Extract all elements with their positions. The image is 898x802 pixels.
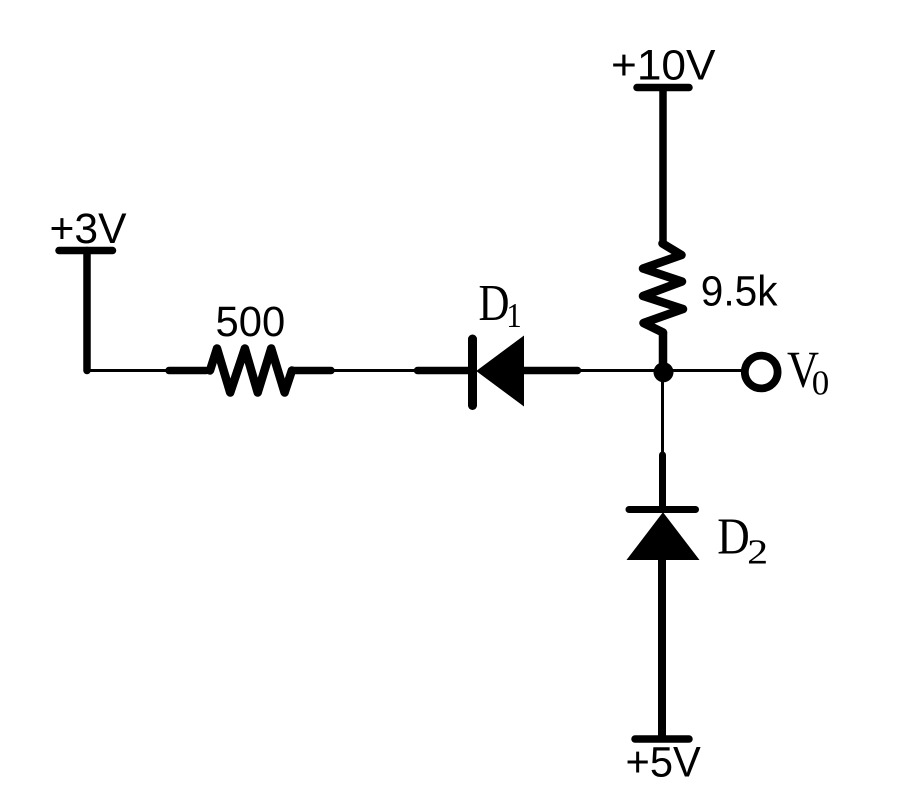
wire thin horizontal through node to output	[577, 369, 745, 372]
wire thin horizontal to R 500	[87, 369, 169, 372]
wire vertical from +10V rail to R 9.5k	[659, 88, 667, 244]
diode D1 anode-side lead	[418, 367, 471, 375]
svg-text:+10V: +10V	[611, 42, 716, 90]
diode D1 cathode bar	[468, 339, 477, 406]
svg-text:0: 0	[812, 364, 830, 403]
output terminal circle V0	[745, 356, 778, 389]
supply rail bar +10V	[637, 84, 689, 92]
svg-text:+5V: +5V	[626, 739, 702, 787]
resistor 500 right lead	[294, 367, 332, 375]
supply rail bar +5V	[635, 735, 689, 743]
svg-text:+3V: +3V	[50, 205, 127, 253]
wire thin horizontal to D1	[331, 369, 417, 372]
resistor 500 left lead	[169, 367, 206, 375]
wire vertical from +3V rail	[83, 251, 91, 371]
resistor 9.5k bottom lead to node	[659, 333, 668, 373]
svg-text:1: 1	[506, 296, 522, 335]
diode D2 cathode bar	[629, 506, 696, 513]
diode D1 right lead	[523, 367, 578, 375]
supply rail bar +3V	[59, 247, 113, 255]
resistor 500 zigzag body	[210, 349, 292, 393]
svg-text:9.5k: 9.5k	[701, 268, 778, 316]
wire thin vertical from node to D2	[661, 372, 664, 453]
diode D2 top lead	[659, 455, 666, 509]
svg-text:D: D	[479, 275, 510, 332]
svg-text:D: D	[717, 509, 750, 566]
diode D1 triangle	[477, 337, 524, 406]
resistor 9.5k zigzag body	[643, 244, 683, 333]
svg-text:2: 2	[747, 533, 768, 572]
svg-text:500: 500	[216, 298, 286, 346]
diode D2 bottom wire to +5V rail	[658, 559, 666, 739]
node junction dot	[654, 362, 674, 382]
diode D2 triangle	[628, 513, 699, 560]
